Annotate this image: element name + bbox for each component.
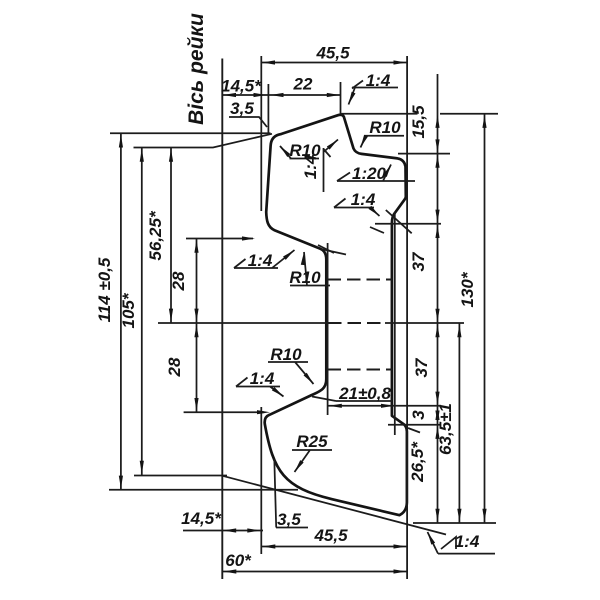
extension line 21 right (394, 212, 396, 435)
dashed line y=369.5 (328, 368, 393, 370)
svg-text:R10: R10 (289, 268, 321, 287)
extension line top of profile y=133.3 (110, 132, 271, 134)
extension line y=147.5 with 1:4 slope continuation (134, 134, 273, 148)
texts rotated (95, 13, 477, 483)
svg-text:22: 22 (293, 75, 313, 94)
130* arrows (482, 115, 486, 128)
leader 1:4 top label (349, 88, 399, 105)
leader R10 neck (290, 252, 330, 286)
svg-text:1:4: 1:4 (455, 532, 480, 551)
svg-text:1:20: 1:20 (352, 164, 387, 183)
leader arrow tips (347, 92, 356, 106)
dim line 14,5* bottom (183, 530, 263, 532)
dim line 130* (484, 114, 486, 523)
extension line neck top y=238.5 with arrow (186, 238, 253, 240)
svg-text:1:4: 1:4 (250, 369, 275, 388)
svg-text:37: 37 (409, 251, 428, 271)
slope tick 1:4 mid (334, 199, 346, 208)
leader 1:4 bottom-right (428, 532, 496, 554)
21±0,8 arrows (329, 404, 342, 408)
svg-text:28: 28 (165, 357, 184, 377)
dashed web lines (328, 280, 393, 370)
dim line 105* (141, 148, 143, 476)
dim line 63,5±1 (458, 323, 460, 523)
extension line head ledge y=153.6 (398, 153, 450, 155)
slope tick 1:4 bottom-right (441, 537, 456, 549)
svg-text:45,5: 45,5 (313, 526, 348, 545)
svg-text:3,5: 3,5 (230, 99, 254, 118)
right chain arrows (435, 115, 439, 128)
45,5 top arrows (262, 60, 275, 64)
dashed waist segment (328, 322, 385, 324)
svg-text:26,5*: 26,5* (408, 441, 427, 483)
leader 3,5 top (229, 117, 267, 127)
svg-text:Вісь рейки: Вісь рейки (185, 13, 208, 125)
svg-text:56,25*: 56,25* (146, 210, 165, 261)
svg-text:60*: 60* (225, 551, 252, 570)
extension line foot-left theoretical x=261.3 (260, 407, 262, 554)
slope tick 1:4 neck (234, 259, 246, 268)
slope tick 1:20 (337, 173, 350, 182)
right outer extension line (406, 56, 408, 579)
svg-text:105*: 105* (119, 292, 138, 328)
svg-text:1:4: 1:4 (366, 71, 391, 90)
leader 21±0,8 (312, 397, 392, 402)
105 arrows (140, 149, 144, 162)
45,5 bottom arrows (262, 544, 275, 548)
leader 1:4 lower-left (236, 387, 284, 397)
svg-text:21±0,8: 21±0,8 (338, 384, 391, 403)
dim line 45,5 bottom (261, 546, 407, 548)
leader R10 head-right (361, 136, 405, 148)
56,25 arrows (169, 149, 173, 162)
dashed line y=279.5 (328, 278, 393, 280)
extension line y=113.7 from peak (341, 113, 498, 115)
arrow on neck line (242, 236, 255, 240)
arrowheads (119, 60, 487, 573)
svg-text:28: 28 (169, 271, 188, 291)
leader 3,5 bottom (274, 459, 308, 528)
extension line y=489.8 bottom of 114 (109, 489, 298, 491)
leader 1:4 rotated (steep head slope) (324, 140, 339, 193)
slope tick 1:4 rotated (324, 149, 331, 157)
waist line y=323 (158, 322, 464, 324)
28 arrows (194, 240, 198, 253)
svg-text:R25: R25 (296, 432, 328, 451)
slope tick 1:4 top (352, 81, 363, 89)
slope mark neck (318, 245, 334, 253)
arrow on notch line (257, 410, 270, 414)
dim line 56,25* (170, 148, 172, 323)
dim line 60* (222, 571, 407, 573)
svg-text:R10: R10 (369, 118, 401, 137)
dim line 45,5 top (261, 62, 407, 64)
svg-text:1:4: 1:4 (351, 190, 376, 209)
extension line foot ledge y=424.7 (388, 424, 441, 426)
svg-text:3: 3 (409, 410, 428, 420)
extension line y=475 bottom of 105* (134, 475, 227, 477)
foot bottom 1:4 construction line (223, 476, 447, 535)
dim line 14,5* / 22 top (222, 94, 340, 96)
leader 1:20 (337, 165, 415, 182)
svg-text:3,5: 3,5 (277, 510, 301, 529)
texts horizontal (181, 44, 480, 571)
svg-text:45,5: 45,5 (315, 44, 350, 63)
svg-text:14,5*: 14,5* (221, 77, 262, 96)
svg-text:1:4: 1:4 (248, 251, 273, 270)
63,5 arrows (457, 324, 461, 337)
rail axis line (Вісь рейки) (221, 59, 223, 580)
dim line 114 ±0,5 (120, 133, 122, 490)
extension line head right corner y=223.8 (375, 223, 441, 225)
svg-text:15,5: 15,5 (409, 105, 428, 139)
extension line bottom right chain y=523 (413, 522, 496, 524)
dim line 21±0,8 y=405.8 (328, 405, 441, 407)
extension line head-left theoretical (260, 56, 262, 211)
svg-text:37: 37 (412, 357, 431, 377)
extension line notch bottom y=412.2 (184, 411, 264, 413)
slope extension neck 1:4 (321, 249, 346, 255)
svg-text:1:4: 1:4 (301, 154, 320, 179)
14,5*/22 arrows (223, 93, 236, 97)
leader R25 (292, 450, 332, 472)
60* arrows (223, 569, 236, 573)
leader R10 foot-left (268, 362, 314, 384)
leader 1:4 neck (234, 250, 295, 268)
extension line head-left actual (267, 84, 269, 133)
extension line head peak (340, 82, 342, 114)
slope mark under head slope (370, 227, 384, 233)
svg-text:14,5*: 14,5* (181, 509, 222, 528)
extension line 21 left (327, 243, 329, 415)
leader R10 head-left (280, 146, 319, 159)
114 arrows (119, 135, 123, 148)
14,5* bottom arrows (223, 528, 236, 532)
svg-text:114 ±0,5: 114 ±0,5 (95, 257, 114, 322)
dim line right chain 15,5/37/37/3/26,5 (437, 74, 439, 523)
slope mark head right (386, 210, 412, 233)
svg-text:R10: R10 (270, 345, 302, 364)
dim line 28 + 28 (196, 239, 198, 413)
slope tick 1:4 lower-left (236, 378, 248, 387)
svg-text:63,5±1: 63,5±1 (436, 403, 455, 455)
slope mark foot right ledge (408, 428, 420, 433)
svg-text:130*: 130* (458, 271, 477, 307)
rail profile outline (265, 115, 407, 515)
leader 1:4 mid (head right slope) (334, 208, 380, 217)
